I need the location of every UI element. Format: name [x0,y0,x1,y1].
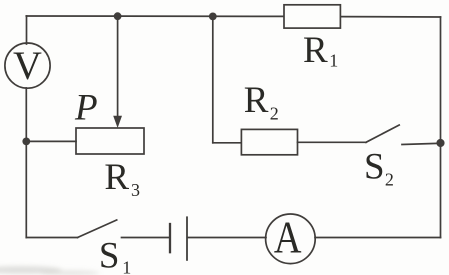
svg-text:1: 1 [122,257,131,275]
wire top right of R1 [341,16,441,18]
svg-text:S: S [364,147,385,188]
switch S1 blade [78,220,117,238]
wire left node to R3 [26,140,76,142]
wire left vertical top to voltmeter [26,16,28,44]
svg-text:R: R [104,157,129,198]
svg-text:2: 2 [270,103,279,123]
svg-text:3: 3 [131,180,140,200]
resistor R1 body [284,5,340,28]
wire ammeter to bottom right corner [315,237,441,239]
potentiometer wiper arrow head [113,116,122,128]
svg-text:R: R [244,80,269,121]
wire R2 branch horizontal [213,142,242,144]
svg-text:1: 1 [329,51,338,71]
wire right vertical [440,17,442,238]
wire R2 to switch S2 [298,141,367,143]
wire S2 contact to right node [402,143,441,144]
wire battery to ammeter [188,237,266,239]
node junction right (S2 to right rail) [436,139,444,147]
svg-text:2: 2 [385,170,394,190]
svg-text:V: V [13,43,42,88]
node junction top left (wiper tap) [114,12,122,20]
svg-text:S: S [99,236,120,275]
resistor R2 body [241,129,297,154]
battery negative plate (short) [169,224,171,252]
svg-text:R: R [303,30,328,71]
wire left vertical voltmeter to bottom corner [25,88,27,238]
scan smudge bottom left [0,266,100,275]
node junction top middle (R2 branch) [209,13,217,21]
voltmeter V circle [5,43,50,88]
switch S2 blade [366,125,399,142]
wire R2 branch vertical [212,16,214,143]
battery positive plate (long) [186,217,188,260]
node junction left (R3 tap) [22,138,30,146]
wire bottom left to switch S1 [26,237,77,239]
wire S1 contact to battery [122,237,169,239]
svg-text:A: A [274,214,302,264]
svg-text:P: P [74,88,98,129]
potentiometer R3 body [76,128,144,154]
wire top horizontal [26,15,284,17]
potentiometer wiper arrow stem [117,16,119,117]
ammeter A circle [266,214,316,264]
